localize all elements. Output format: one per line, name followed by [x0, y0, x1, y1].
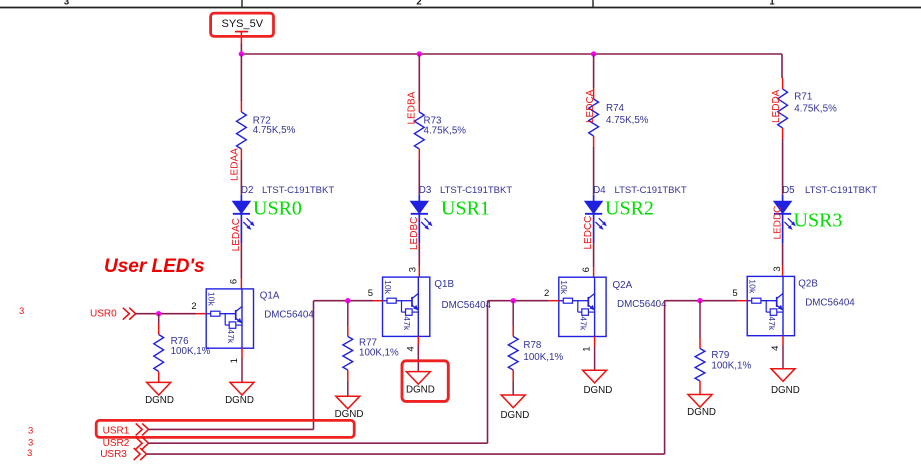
svg-text:USR2: USR2	[605, 198, 654, 220]
label DGND Q1A	[225, 395, 254, 406]
svg-text:47k: 47k	[226, 329, 236, 344]
wire R78 upper	[512, 301, 514, 337]
ground DGND Q2B	[771, 369, 795, 382]
red highlight box around SYS_5V	[211, 13, 274, 36]
svg-text:LEDCC: LEDCC	[583, 216, 594, 250]
signal label USR1	[103, 425, 130, 436]
red highlight box around DGND Q1B	[402, 361, 448, 402]
pin number 6 Q2A collector	[581, 267, 592, 272]
value DMC56404 Q1B	[442, 300, 492, 311]
pin number 3 Q2B collector	[772, 266, 783, 271]
svg-text:USR1: USR1	[441, 198, 490, 220]
wire R to LED col3	[593, 147, 595, 195]
zone tick right	[592, 0, 594, 8]
net label LEDCA	[585, 89, 596, 123]
signal label USR0	[90, 308, 117, 319]
pin number 2 Q2A base	[544, 288, 549, 299]
wire collector stub col4	[782, 266, 784, 277]
zone number 2	[416, 0, 421, 8]
pin number 5 Q1B base	[368, 288, 373, 299]
label R71	[794, 91, 812, 102]
svg-text:4: 4	[405, 346, 416, 351]
net label LEDAC	[231, 218, 242, 251]
label R72	[253, 116, 271, 127]
value 100K,1% R78	[523, 352, 563, 363]
value 100K,1% R79	[711, 360, 751, 371]
junction bus col1	[239, 51, 244, 56]
sheet ref 3 USR1	[28, 426, 33, 437]
svg-text:DGND: DGND	[145, 395, 174, 406]
wire power bus horizontal	[241, 53, 782, 55]
wire USR3 to Q2B	[665, 300, 738, 302]
svg-text:USR0: USR0	[90, 308, 117, 319]
svg-text:3: 3	[28, 426, 33, 437]
svg-text:D5: D5	[782, 185, 795, 196]
wire R79 upper	[699, 301, 701, 349]
LED D2	[233, 195, 255, 244]
wire R77 to ground	[347, 370, 349, 396]
wire LED to Q col4	[782, 244, 784, 266]
title User LED's	[104, 256, 205, 277]
svg-text:6: 6	[581, 267, 592, 272]
net label LEDDC	[773, 206, 784, 240]
label DGND R76	[145, 395, 174, 406]
pin number 4 Q2B emitter	[770, 346, 781, 351]
junction R76 tap	[156, 311, 161, 316]
svg-text:Q2B: Q2B	[798, 279, 818, 290]
resistor R72	[237, 112, 247, 149]
net label LEDAA	[230, 148, 241, 181]
ground DGND Q2A	[583, 370, 607, 383]
wire R to LED col1	[240, 160, 242, 195]
svg-text:DGND: DGND	[583, 385, 612, 396]
net label LEDCC	[583, 216, 594, 250]
net label LEDDA	[771, 89, 782, 123]
LED D2 designator	[241, 185, 254, 196]
net label LEDBA	[406, 91, 417, 124]
wire stub below R col2	[418, 149, 420, 160]
label R78	[523, 340, 542, 351]
ground DGND Q1B	[406, 372, 430, 385]
junction bus col2	[417, 51, 422, 56]
wire R to LED col2	[418, 160, 420, 195]
wire R76 upper	[158, 314, 160, 335]
svg-text:DGND: DGND	[225, 395, 254, 406]
svg-text:47k: 47k	[579, 316, 589, 331]
LED D5	[774, 195, 796, 244]
zone tick left	[241, 0, 243, 8]
svg-text:5: 5	[368, 288, 373, 299]
junction bus col3	[591, 51, 596, 56]
wire USR1 horizontal	[149, 428, 314, 430]
pin number 6 Q1A collector	[229, 279, 240, 284]
wire stub above R col4	[782, 78, 784, 89]
power net label SYS_5V	[222, 18, 264, 30]
svg-text:2: 2	[544, 288, 549, 299]
svg-text:100K,1%: 100K,1%	[523, 352, 563, 363]
svg-text:3: 3	[407, 267, 418, 272]
label DGND R79	[687, 407, 716, 418]
svg-text:5: 5	[732, 288, 737, 299]
label DGND R78	[500, 410, 529, 421]
svg-text:USR2: USR2	[103, 438, 130, 449]
svg-text:LTST-C191TBKT: LTST-C191TBKT	[805, 185, 877, 196]
svg-text:LTST-C191TBKT: LTST-C191TBKT	[615, 185, 687, 196]
svg-text:D4: D4	[593, 185, 606, 196]
wire bus drop col1	[240, 54, 242, 101]
LED D2 value LTST-C191TBKT	[262, 185, 334, 196]
svg-text:DGND: DGND	[335, 409, 364, 420]
label R77	[359, 338, 377, 349]
svg-text:Q1A: Q1A	[260, 291, 280, 302]
svg-text:R78: R78	[523, 340, 542, 351]
wire collector stub col2	[418, 266, 420, 277]
pin number 2 Q1A base	[191, 301, 196, 312]
pin number 1 Q1A emitter	[229, 358, 240, 363]
value 100K,1% R77	[359, 348, 399, 359]
transistor Q1B	[383, 277, 430, 336]
svg-text:2: 2	[191, 301, 196, 312]
wire Q1B emitter	[417, 336, 419, 371]
label R79	[711, 350, 729, 361]
svg-text:DMC56404: DMC56404	[805, 298, 855, 309]
svg-text:4.75K,5%: 4.75K,5%	[794, 104, 837, 115]
power symbol SYS_5V	[235, 32, 248, 44]
wire stub below R col3	[593, 136, 595, 147]
resistor R77	[343, 337, 353, 371]
pin number 3 Q1B collector	[407, 267, 418, 272]
value 4.75K,5% R72	[253, 125, 296, 136]
value 4.75K,5% R73	[424, 126, 467, 137]
wire USR0 to junction	[136, 313, 197, 315]
ground DGND Q1A	[230, 382, 254, 395]
LED D3	[411, 195, 433, 244]
svg-text:USR0: USR0	[253, 198, 302, 220]
svg-text:4.75K,5%: 4.75K,5%	[606, 115, 649, 126]
wire R79 to ground	[699, 381, 701, 395]
transistor Q2A	[559, 277, 606, 336]
wire USR2 riser	[487, 301, 489, 444]
wire base stub Q1A	[196, 313, 206, 315]
label Q1A	[260, 291, 280, 302]
svg-text:6: 6	[229, 279, 240, 284]
transistor Q2B	[747, 276, 794, 335]
svg-text:D2: D2	[241, 185, 254, 196]
value DMC56404 Q2A	[617, 299, 667, 310]
svg-text:100K,1%: 100K,1%	[711, 360, 751, 371]
svg-text:SYS_5V: SYS_5V	[222, 18, 264, 30]
label R76	[171, 336, 190, 347]
resistor R74	[589, 99, 599, 136]
wire Q2A emitter	[594, 337, 596, 371]
label Q1B	[434, 279, 454, 290]
wire LED to Q col3	[593, 244, 595, 267]
value 4.75K,5% R74	[606, 115, 649, 126]
LED D3 designator	[419, 185, 432, 196]
label R73	[424, 116, 443, 127]
svg-text:Q1B: Q1B	[434, 279, 454, 290]
signal label USR3	[100, 449, 127, 460]
svg-text:10k: 10k	[383, 280, 393, 295]
wire USR3 riser	[664, 301, 666, 454]
wire R to LED col4	[782, 139, 784, 195]
junction R78 tap	[511, 298, 516, 303]
wire stub above R col1	[240, 101, 242, 112]
wire collector stub col1	[240, 278, 242, 289]
svg-text:10k: 10k	[207, 292, 217, 307]
svg-text:USR3: USR3	[100, 449, 127, 460]
svg-text:1: 1	[769, 0, 775, 8]
label DGND R77	[335, 409, 364, 420]
pin number 1 Q2A emitter	[582, 346, 593, 351]
svg-text:1: 1	[229, 358, 240, 363]
svg-text:3: 3	[64, 0, 69, 8]
pin number 5 Q2B base	[732, 288, 737, 299]
wire R78 to ground	[512, 370, 514, 395]
sheet ref 3 USR3	[27, 448, 32, 459]
label USR0 green	[253, 198, 302, 220]
wire R76 to ground	[158, 372, 160, 383]
wire bus corner drop col4	[781, 54, 783, 78]
LED D4	[585, 195, 607, 244]
label Q2B	[798, 279, 818, 290]
wire LED to Q col2	[418, 244, 420, 266]
svg-text:LEDCA: LEDCA	[585, 89, 596, 123]
svg-text:4: 4	[770, 346, 781, 351]
junction R79 tap	[697, 298, 702, 303]
LED D5 value LTST-C191TBKT	[805, 185, 877, 196]
wire stub above R col3	[593, 88, 595, 99]
svg-text:LEDDA: LEDDA	[771, 89, 782, 123]
wire SYS_5V stub	[240, 44, 242, 55]
offpage connector USR3	[134, 448, 147, 460]
svg-text:3: 3	[772, 266, 783, 271]
value DMC56404 Q2B	[805, 298, 855, 309]
LED D4 value LTST-C191TBKT	[615, 185, 687, 196]
svg-text:1: 1	[582, 346, 593, 351]
svg-text:LEDDC: LEDDC	[773, 206, 784, 240]
svg-text:D3: D3	[419, 185, 432, 196]
svg-text:LEDAC: LEDAC	[231, 218, 242, 251]
svg-text:Q2A: Q2A	[613, 280, 633, 291]
wire base stub Q2A	[549, 300, 559, 302]
offpage connector USR1	[136, 423, 149, 435]
svg-text:DMC56404: DMC56404	[617, 299, 667, 310]
net label LEDBC	[409, 217, 420, 250]
label R74	[606, 103, 625, 114]
svg-text:LTST-C191TBKT: LTST-C191TBKT	[262, 185, 334, 196]
wire stub above R col2	[418, 101, 420, 112]
wire USR1 to Q1B	[314, 300, 373, 302]
svg-text:USR3: USR3	[794, 210, 843, 232]
svg-text:4.75K,5%: 4.75K,5%	[253, 125, 296, 136]
signal label USR2	[103, 438, 130, 449]
resistor R73	[414, 112, 424, 149]
svg-text:R71: R71	[794, 91, 812, 102]
ground DGND R78	[501, 395, 525, 408]
svg-text:47k: 47k	[767, 316, 777, 331]
wire Q2B emitter	[782, 336, 784, 369]
label DGND Q1B	[406, 385, 435, 396]
value DMC56404 Q1A	[264, 310, 314, 321]
label DGND Q2A	[583, 385, 612, 396]
svg-text:3: 3	[28, 437, 33, 448]
svg-text:LEDBC: LEDBC	[409, 217, 420, 250]
label USR1 green	[441, 198, 490, 220]
resistor R78	[508, 337, 518, 371]
wire USR3 horizontal	[147, 453, 665, 455]
svg-text:R74: R74	[606, 103, 625, 114]
svg-text:10k: 10k	[559, 280, 569, 295]
wire R77 upper	[347, 301, 349, 337]
svg-text:4.75K,5%: 4.75K,5%	[424, 126, 467, 137]
LED D3 value LTST-C191TBKT	[440, 185, 512, 196]
label USR2 green	[605, 198, 654, 220]
wire bus drop col3	[593, 54, 595, 88]
wire Q1A emitter	[241, 348, 243, 382]
sheet ref 3 USR2	[28, 437, 33, 448]
wire LED to Q col1	[240, 244, 242, 278]
resistor R79	[695, 349, 705, 382]
transistor Q1A	[206, 289, 253, 348]
wire stub below R col4	[782, 128, 784, 139]
svg-text:DMC56404: DMC56404	[442, 300, 492, 311]
svg-text:100K,1%: 100K,1%	[171, 346, 211, 357]
wire USR1 riser	[313, 301, 315, 430]
svg-text:10k: 10k	[748, 279, 758, 294]
wire base stub Q2B	[737, 300, 747, 302]
svg-text:DGND: DGND	[406, 385, 435, 396]
svg-text:2: 2	[416, 0, 421, 8]
ground DGND R77	[336, 396, 360, 409]
value 4.75K,5% R71	[794, 104, 837, 115]
offpage connector USR2	[136, 437, 149, 449]
svg-text:3: 3	[19, 306, 24, 317]
junction R77 tap	[345, 298, 350, 303]
svg-text:DGND: DGND	[500, 410, 529, 421]
zone number 3	[64, 0, 69, 8]
svg-text:LEDAA: LEDAA	[230, 148, 241, 181]
ground DGND R79	[688, 395, 712, 408]
svg-text:DGND: DGND	[771, 385, 800, 396]
resistor R76	[154, 335, 164, 372]
label USR3 green	[794, 210, 843, 232]
pin number 4 Q1B emitter	[405, 346, 416, 351]
svg-text:User LED's: User LED's	[104, 256, 205, 277]
label DGND Q2B	[771, 385, 800, 396]
wire bus drop col2	[418, 54, 420, 101]
LED D4 designator	[593, 185, 606, 196]
svg-text:3: 3	[27, 448, 32, 459]
LED D5 designator	[782, 185, 795, 196]
resistor R71	[778, 89, 788, 128]
svg-text:LEDBA: LEDBA	[406, 91, 417, 124]
wire USR2 horizontal	[149, 442, 488, 444]
ground DGND R76	[147, 382, 171, 395]
value 100K,1% R76	[171, 346, 211, 357]
svg-text:USR1: USR1	[103, 425, 130, 436]
red highlight box around USR1	[96, 420, 354, 437]
svg-text:100K,1%: 100K,1%	[359, 348, 399, 359]
svg-text:47k: 47k	[402, 316, 412, 331]
wire base stub Q1B	[373, 300, 383, 302]
svg-text:DGND: DGND	[687, 407, 716, 418]
wire USR2 to Q2A	[488, 300, 549, 302]
zone number 1	[769, 0, 775, 8]
svg-text:DMC56404: DMC56404	[264, 310, 314, 321]
svg-text:LTST-C191TBKT: LTST-C191TBKT	[440, 185, 512, 196]
wire stub below R col1	[240, 149, 242, 160]
sheet top border	[0, 7, 921, 9]
offpage connector USR0	[123, 308, 136, 320]
label Q2A	[613, 280, 633, 291]
wire collector stub col3	[593, 267, 595, 277]
sheet ref 3 USR0	[19, 306, 24, 317]
